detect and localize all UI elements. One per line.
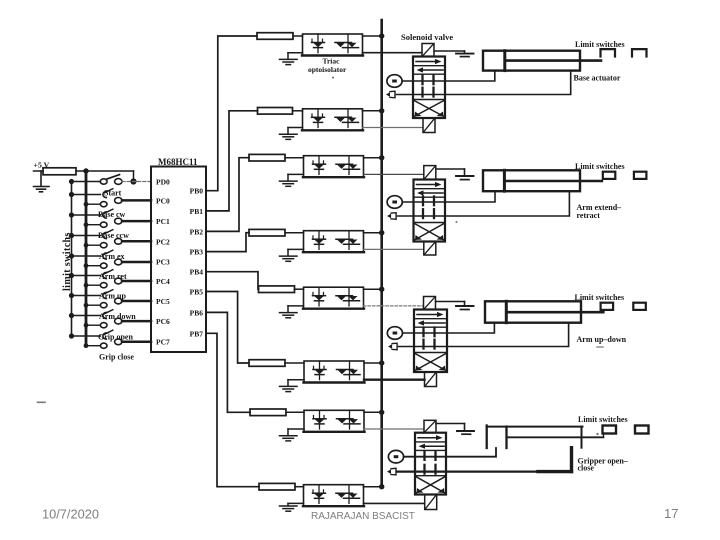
- wire PB3 feed to opto row4: [206, 233, 249, 252]
- resistor R7a (opto row 7): [250, 409, 286, 416]
- wire opto U4 output to AC bus: [364, 232, 382, 234]
- stray mark dash left: [38, 401, 46, 403]
- exhaust triangle E4: [387, 468, 396, 475]
- switch SW8 Grip open (PC6): [69, 310, 151, 328]
- junction dot bus row 2: [379, 108, 384, 113]
- junction dot bus row 6: [379, 360, 384, 365]
- resistor R-pullup: [43, 168, 76, 175]
- ground opto row 2: [280, 128, 303, 140]
- wire opto U7 output to solenoid: [364, 428, 424, 430]
- wire valve V1 port B to cylinder rod end: [397, 71, 571, 95]
- junction dot bus row 8: [379, 484, 384, 489]
- wire resistor to opto U4: [285, 232, 304, 234]
- ground opto row 6: [280, 380, 305, 392]
- stray mark dash 4: [597, 346, 603, 348]
- wire AC bus vertical: [380, 20, 383, 487]
- limit switch LS2a: [603, 172, 616, 179]
- wire +5V down to PD0 line: [133, 171, 135, 182]
- wire +5V input: [34, 170, 44, 172]
- switch SW6 Arm up (PC4): [69, 270, 151, 288]
- svg-text:Limit switches: Limit switches: [575, 293, 625, 302]
- stray mark dot 1: [455, 221, 457, 223]
- svg-text:PB0: PB0: [190, 187, 204, 196]
- solenoid valve V3 bottom coil: [425, 372, 437, 387]
- wire PB1 feed to opto row2: [206, 111, 258, 211]
- solenoid valve V1 top coil: [422, 44, 434, 57]
- resistor R6a (opto row 6): [249, 360, 285, 367]
- svg-text:PC5: PC5: [156, 297, 170, 306]
- limit switch LS4a: [603, 426, 617, 438]
- cylinder actuator 2: [483, 170, 602, 191]
- switch SW3 Base ccw (PC1): [69, 209, 151, 227]
- wire opto U2 output to solenoid: [363, 127, 424, 129]
- svg-text:PB5: PB5: [190, 288, 204, 297]
- solenoid valve V3 top coil: [424, 297, 436, 310]
- valve V2 body: [414, 180, 446, 242]
- pressure source P1 (circle-dot): [387, 75, 402, 88]
- opto U6 triac optoisolator: [304, 361, 365, 383]
- svg-text:Limit switches: Limit switches: [578, 415, 628, 424]
- wire opto U3 output to solenoid: [364, 173, 424, 175]
- wire resistor to opto U7: [286, 411, 304, 413]
- solenoid valve V2 top coil: [424, 166, 436, 180]
- svg-text:PC7: PC7: [156, 338, 170, 347]
- wire opto U3 output to AC bus: [364, 157, 382, 159]
- svg-text:Start: Start: [104, 188, 122, 197]
- opto U2 triac optoisolator: [302, 109, 363, 131]
- resistor R3a (opto row 3): [249, 154, 285, 161]
- ground opto row 8: [280, 503, 304, 511]
- solenoid valve V4 bottom coil: [425, 495, 437, 510]
- solenoid valve V2 bottom coil: [424, 242, 436, 256]
- resistor R8a (opto row 8): [259, 483, 295, 490]
- wire opto U6 output to solenoid: [364, 379, 425, 381]
- wire resistor to opto U3: [285, 157, 304, 159]
- svg-text:PB4: PB4: [190, 268, 204, 277]
- cylinder actuator 1: [483, 51, 601, 71]
- exhaust triangle E1: [386, 91, 395, 98]
- wire opto U1 output to AC bus: [363, 35, 382, 37]
- cylinder actuator 3: [485, 301, 603, 322]
- wire valve V4 port B to gripper: [398, 448, 572, 472]
- gripper actuator: [487, 426, 604, 449]
- exhaust triangle E3: [388, 343, 397, 350]
- svg-text:Base actuator: Base actuator: [574, 74, 621, 83]
- solenoid valve V4 top coil: [424, 420, 436, 432]
- limit switch LS1b: [632, 49, 647, 56]
- solenoid valve V1 bottom coil: [423, 118, 435, 133]
- wire valve V2 port A to cylinder cap end: [402, 191, 495, 202]
- svg-text:Limit switches: Limit switches: [575, 40, 625, 49]
- svg-text:Arm up–down: Arm up–down: [577, 335, 627, 344]
- op-amp U1 M68HC11 microcontroller box: [151, 167, 206, 353]
- wire valve V3 port A to cylinder cap end: [403, 323, 495, 333]
- switch SW7 Arm down (PC5): [69, 290, 151, 308]
- switch SW2 Base cw (PC0): [69, 189, 151, 207]
- svg-text:PC2: PC2: [156, 237, 170, 246]
- stray mark dot 2: [332, 77, 334, 79]
- wire opto U8 output to AC bus: [364, 486, 382, 488]
- ground opto row 7: [280, 429, 305, 441]
- wire resistor to bus: [76, 170, 134, 172]
- resistor R5a (opto row 5): [259, 286, 295, 293]
- wire opto U5 output to AC bus: [364, 288, 382, 290]
- valve V1 body: [413, 57, 445, 119]
- svg-text:PC3: PC3: [156, 258, 170, 267]
- svg-text:PB7: PB7: [190, 329, 204, 338]
- svg-text:PB1: PB1: [190, 207, 204, 216]
- junction dot bus row 1: [379, 33, 384, 38]
- limit switch LS4b: [635, 426, 649, 434]
- ground opto row 5: [280, 306, 304, 318]
- switch SW5 Arm ret (PC3): [69, 250, 151, 268]
- wire PB4 feed to opto row5: [206, 272, 259, 290]
- wire opto U1 output to solenoid: [363, 52, 423, 54]
- svg-text:PC0: PC0: [156, 196, 170, 205]
- wire PB5 feed to opto row6: [206, 292, 249, 364]
- valve V4 body: [415, 433, 446, 495]
- pressure source P4 (circle-dot): [388, 450, 403, 463]
- wire PB0 feed to opto row1: [206, 36, 257, 191]
- svg-text:M68HC11: M68HC11: [158, 157, 198, 167]
- resistor R1a (opto row 1): [257, 33, 293, 40]
- limit switch LS1a: [601, 49, 616, 56]
- wire resistor to opto U1: [293, 35, 303, 37]
- wire opto U6 output to AC bus: [364, 362, 382, 364]
- pressure source P3 (circle-dot): [387, 327, 402, 340]
- junction dot at +5V rail: [83, 168, 88, 173]
- wire opto U4 output to solenoid: [364, 248, 424, 250]
- wire PB2 feed to opto row3: [206, 158, 249, 232]
- ground valve V4: [436, 424, 474, 435]
- wire bus thin: [71, 182, 73, 337]
- ground opto row 3: [280, 174, 304, 186]
- opto U4 triac optoisolator: [303, 231, 364, 253]
- svg-text:PC1: PC1: [156, 217, 170, 226]
- wire valve V1 port A to cylinder cap end: [402, 71, 495, 81]
- svg-text:RAJARAJAN BSACIST: RAJARAJAN BSACIST: [311, 511, 415, 522]
- stray mark dot 3: [596, 433, 598, 435]
- opto U8 triac optoisolator: [303, 485, 364, 507]
- svg-text:PC4: PC4: [156, 277, 170, 286]
- wire resistor to opto U6: [285, 362, 304, 364]
- ground G-left: [34, 171, 50, 192]
- svg-text:limit switchs: limit switchs: [62, 232, 73, 291]
- wire valve V3 port B to cylinder rod end: [399, 323, 569, 347]
- wire opto U2 output to AC bus: [363, 110, 382, 112]
- junction dot bus row 3: [379, 155, 384, 160]
- resistor R2a (opto row 2): [258, 108, 293, 115]
- wire resistor to opto U5: [295, 288, 304, 290]
- wire bus thick: [85, 171, 88, 346]
- wire resistor to opto U2: [293, 110, 303, 112]
- svg-text:close: close: [578, 464, 595, 473]
- opto U3 triac optoisolator: [303, 156, 364, 178]
- wire PB7 feed to opto row8: [206, 333, 259, 486]
- pressure source P2 (circle-dot): [387, 196, 402, 209]
- wire resistor to opto U8: [295, 486, 304, 488]
- svg-text:PC6: PC6: [156, 317, 170, 326]
- valve V3 body: [414, 310, 447, 373]
- svg-text:PB6: PB6: [190, 308, 204, 317]
- opto U7 triac optoisolator: [304, 410, 365, 432]
- limit switch LS3b: [633, 303, 646, 310]
- switch SW1 Start (PD0): [69, 175, 151, 185]
- junction dot bus row 7: [379, 410, 384, 415]
- wire opto U7 output to AC bus: [364, 411, 382, 413]
- junction dot bus row 4: [379, 230, 384, 235]
- svg-text:PD0: PD0: [156, 178, 170, 187]
- wire valve V4 port A to gripper: [404, 448, 496, 457]
- svg-text:17: 17: [664, 506, 678, 521]
- svg-text:PB2: PB2: [190, 227, 204, 236]
- ground opto row 4: [280, 249, 304, 261]
- wire opto U5 output to solenoid: [364, 305, 424, 307]
- limit switch LS3a: [601, 303, 614, 310]
- svg-text:optoisolator: optoisolator: [308, 65, 347, 74]
- svg-text:PB3: PB3: [190, 248, 204, 257]
- svg-text:10/7/2020: 10/7/2020: [42, 507, 99, 522]
- switch SW9 Grip close (PC7): [69, 330, 151, 348]
- ground opto row 1: [280, 53, 303, 65]
- limit switch LS2b: [634, 172, 647, 179]
- ground valve V3: [436, 302, 474, 310]
- resistor R4a (opto row 4): [249, 229, 285, 236]
- ground valve V1: [434, 51, 474, 57]
- svg-text:Solenoid valve: Solenoid valve: [401, 32, 453, 42]
- wire opto U8 output to solenoid: [364, 502, 425, 504]
- svg-text:Limit switches: Limit switches: [575, 162, 625, 171]
- svg-text:Base cw: Base cw: [98, 210, 126, 219]
- svg-text:retract: retract: [577, 211, 601, 220]
- wire valve V2 port B to cylinder rod end: [398, 191, 570, 216]
- junction dot bus row 5: [379, 287, 384, 292]
- opto U5 triac optoisolator: [303, 287, 364, 309]
- svg-text:Grip close: Grip close: [99, 352, 134, 361]
- wire PB6 feed to opto row7: [206, 312, 250, 412]
- exhaust triangle E2: [387, 213, 396, 220]
- opto U1 triac optoisolator: [302, 34, 363, 56]
- junction dot PD0: [130, 178, 136, 184]
- switch SW4 Arm ex (PC2): [69, 230, 151, 248]
- ground valve V2: [436, 169, 474, 180]
